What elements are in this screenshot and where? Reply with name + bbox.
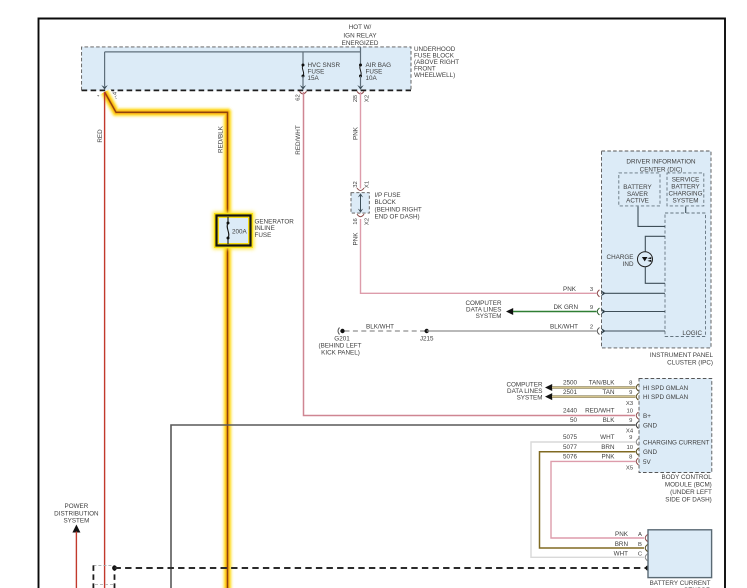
connector cup BCM charging current (636, 439, 638, 446)
svg-text:9: 9 (629, 418, 632, 424)
svg-text:KICK PANEL): KICK PANEL) (321, 349, 360, 356)
svg-text:WHEELWELL): WHEELWELL) (414, 72, 455, 79)
label BATTERY SAVER ACTIVE (623, 184, 652, 204)
svg-text:2B: 2B (353, 95, 359, 102)
svg-text:ENERGIZED: ENERGIZED (342, 40, 379, 47)
connector cup into ip fuse block (357, 188, 364, 191)
label POWER DISTRIBUTION SYSTEM (54, 503, 99, 524)
svg-text:X5: X5 (626, 466, 634, 472)
arrow DK GRN to computer data lines (506, 308, 513, 315)
svg-text:POWER: POWER (65, 503, 89, 510)
label 5076 PNK 8 (563, 454, 633, 461)
svg-text:CHARGE: CHARGE (607, 254, 634, 261)
ip fuse block box (351, 193, 369, 213)
label PNK A (615, 531, 642, 538)
svg-text:BATTERY: BATTERY (671, 184, 700, 191)
connector cup BCM 5v (636, 458, 638, 465)
svg-text:PNK: PNK (602, 454, 616, 461)
svg-text:X4: X4 (626, 428, 634, 434)
svg-text:5075: 5075 (563, 434, 578, 441)
svg-text:PNK: PNK (615, 531, 629, 538)
label 50 BLK 9 (570, 417, 632, 424)
BCM internal labels (643, 385, 710, 466)
arrow at pin 1 (101, 85, 107, 90)
svg-text:IND: IND (623, 261, 634, 268)
svg-text:62: 62 (296, 94, 302, 101)
connector cup IPC pin 3 (597, 290, 599, 297)
connector cup pin 62 (300, 91, 307, 94)
svg-text:(BEHIND RIGHT: (BEHIND RIGHT (375, 206, 422, 213)
svg-text:BLK/WHT: BLK/WHT (366, 323, 394, 330)
label 5075 WHT 9 (563, 434, 632, 441)
svg-text:B: B (638, 542, 642, 548)
label HVC SNSR FUSE 15A (308, 62, 341, 82)
label BODY CONTROL MODULE (BCM) (UNDER LEFT SIDE OF DASH) (662, 474, 713, 503)
svg-text:32: 32 (353, 181, 359, 188)
svg-text:END OF DASH): END OF DASH) (375, 214, 420, 221)
svg-text:TAN/BLK: TAN/BLK (589, 380, 616, 387)
label CHARGE IND (607, 254, 634, 268)
wire PNK 5076 (551, 461, 644, 538)
instrument panel cluster box (602, 151, 712, 348)
label SERVICE BATTERY CHARGING SYSTEM (669, 177, 703, 205)
connector cup IPC pin 9 (597, 308, 599, 315)
fuse HVC SNSR 15A (302, 64, 305, 78)
label DRIVER INFORMATION CENTER (DIC) (626, 159, 696, 174)
wire RED/BLK thick highlighted generator cable (105, 92, 228, 217)
junction dot at battery current sensor (645, 565, 650, 570)
svg-text:(UNDER LEFT: (UNDER LEFT (670, 489, 712, 496)
arrow to power distribution (72, 525, 80, 533)
label INSTRUMENT PANEL CLUSTER (IPC) (650, 352, 714, 366)
connector cup BCS A (645, 535, 647, 542)
svg-text:X2: X2 (365, 218, 371, 225)
junction dot dashed link (112, 566, 117, 571)
dashed link line to battery current sensor (115, 567, 649, 569)
wire BLK 50 (171, 425, 636, 588)
svg-text:MODULE (BCM): MODULE (BCM) (665, 482, 712, 489)
battery saver active box (619, 173, 660, 206)
svg-text:FUSE: FUSE (255, 232, 272, 239)
label G201 (BEHIND LEFT KICK PANEL) (318, 335, 361, 356)
label BRN B (615, 541, 642, 548)
svg-text:16: 16 (353, 218, 359, 225)
wire bus inside fuse block (105, 51, 361, 53)
logic box (665, 213, 706, 337)
svg-text:SYSTEM: SYSTEM (673, 197, 699, 204)
label UNDERHOOD FUSE BLOCK (ABOVE RIGHT FRONT WHEELWELL) (414, 46, 459, 79)
svg-text:RED/WHT: RED/WHT (295, 125, 302, 155)
svg-text:WHT: WHT (600, 434, 614, 441)
connector cup BCM pin 10 (636, 412, 638, 419)
label COMPUTER DATA LINES SYSTEM (IPC) (465, 300, 501, 320)
wire RED power distribution (75, 532, 77, 588)
svg-text:HOT W/: HOT W/ (349, 24, 372, 31)
svg-text:BATTERY CURRENT: BATTERY CURRENT (650, 580, 711, 587)
label 2501 TAN 9 (563, 389, 632, 396)
fuse 200A symbol (227, 217, 248, 244)
svg-text:SYSTEM: SYSTEM (476, 313, 502, 320)
label AIR BAG FUSE 10A (366, 62, 392, 82)
svg-text:CENTER (DIC): CENTER (DIC) (640, 166, 683, 173)
svg-text:RED/BLK: RED/BLK (218, 125, 225, 153)
wire WHT 5075 (531, 442, 644, 557)
svg-text:5V: 5V (643, 459, 652, 466)
wire drop to HVC fuse (302, 52, 304, 65)
svg-text:(BEHIND LEFT: (BEHIND LEFT (318, 342, 361, 349)
connector cup BCM pin 9 X4 (636, 422, 638, 429)
svg-text:RED/WHT: RED/WHT (585, 408, 615, 415)
svg-text:BLK/WHT: BLK/WHT (550, 324, 578, 331)
svg-text:GND: GND (643, 423, 657, 430)
fuse AIR BAG 10A (359, 64, 362, 78)
connector cup below ip fuse block (357, 214, 364, 217)
svg-text:5076: 5076 (563, 454, 578, 461)
label 5077 BRN 10 (563, 444, 634, 451)
label WHT C (614, 551, 643, 558)
wire RED/WHT from pin 62 (304, 92, 636, 416)
svg-text:PNK: PNK (563, 286, 577, 293)
label GENERATOR INLINE FUSE (255, 218, 295, 239)
battery current sensor box (648, 530, 712, 578)
wire IPC pin2 to logic (601, 328, 606, 334)
wire PNK from air bag fuse (360, 92, 362, 189)
junction J215 (425, 329, 429, 333)
svg-text:10A: 10A (366, 75, 378, 82)
svg-text:10: 10 (627, 445, 634, 451)
svg-text:C: C (638, 552, 643, 558)
svg-text:200A: 200A (232, 228, 248, 235)
label 2500 TAN/BLK 8 (563, 380, 633, 387)
label 2440 RED/WHT 10 (563, 408, 634, 415)
svg-text:SYSTEM: SYSTEM (517, 394, 543, 401)
svg-text:50: 50 (570, 417, 578, 424)
svg-text:2501: 2501 (563, 389, 578, 396)
svg-text:B+: B+ (643, 413, 651, 420)
svg-text:INSTRUMENT PANEL: INSTRUMENT PANEL (650, 352, 714, 359)
svg-text:PNK: PNK (353, 126, 360, 140)
wire battery saver to logic (638, 207, 665, 227)
label HOT W/ IGN RELAY ENERGIZED (342, 24, 379, 47)
svg-text:CHARGING CURRENT: CHARGING CURRENT (643, 440, 710, 447)
label I/P FUSE BLOCK (BEHIND RIGHT END OF DASH) (375, 192, 422, 221)
wire RED main (104, 92, 106, 588)
connector cup IPC pin 2 (597, 328, 599, 335)
svg-text:HI SPD GMLAN: HI SPD GMLAN (643, 394, 689, 401)
body control module box (639, 379, 712, 473)
charge indicator circle (638, 252, 653, 267)
service battery charging system box (667, 173, 704, 206)
wire AIR BAG fuse to pin 2B (360, 76, 362, 87)
wire RED/BLK lower segment (221, 244, 234, 588)
svg-text:SYSTEM: SYSTEM (63, 517, 89, 524)
svg-text:BODY CONTROL: BODY CONTROL (662, 474, 713, 481)
ground G201 (338, 328, 345, 335)
wire TAN (552, 396, 636, 398)
svg-text:10: 10 (627, 409, 634, 415)
arrow at pin 2B (357, 85, 363, 90)
svg-text:DRIVER INFORMATION: DRIVER INFORMATION (626, 159, 696, 166)
wire drop to pin 1 (104, 52, 106, 87)
charge indicator LED symbol (642, 257, 651, 262)
svg-text:BRN: BRN (615, 541, 629, 548)
connector cup BCS C (645, 554, 647, 561)
wire TAN/BLK (552, 386, 636, 388)
arrow at pin 62 (300, 85, 306, 90)
svg-text:BRN: BRN (601, 444, 615, 451)
svg-text:9: 9 (629, 435, 632, 441)
svg-text:IGN RELAY: IGN RELAY (343, 32, 377, 39)
wire DK GRN to IPC pin 9 (513, 311, 597, 313)
svg-text:LOGIC: LOGIC (682, 330, 702, 337)
svg-text:SIDE OF DASH): SIDE OF DASH) (665, 496, 712, 503)
svg-text:PNK: PNK (353, 232, 360, 246)
svg-text:A: A (638, 532, 642, 538)
wire BRN 5077 (540, 452, 645, 548)
svg-text:DK GRN: DK GRN (554, 304, 579, 311)
underhood fuse block box (82, 47, 411, 91)
svg-text:TAN: TAN (602, 389, 615, 396)
bottom connector box dashed (93, 565, 114, 588)
svg-text:2: 2 (590, 325, 593, 331)
wire logic to charge ind (645, 236, 665, 251)
svg-text:CLUSTER (IPC): CLUSTER (IPC) (667, 359, 713, 366)
connector cup pin 2B (357, 91, 364, 94)
svg-text:2440: 2440 (563, 408, 578, 415)
wire charge ind to logic lower (645, 267, 665, 284)
connector cup BCM gnd (636, 448, 638, 455)
wire drop from ign relay label (360, 47, 362, 65)
wire IPC pin9 to logic (601, 308, 606, 314)
svg-text:9: 9 (629, 390, 632, 396)
svg-text:GND: GND (643, 449, 657, 456)
svg-text:G201: G201 (334, 335, 350, 342)
svg-text:5077: 5077 (563, 444, 578, 451)
svg-text:X2: X2 (365, 95, 371, 102)
connector cup BCM pin 9 (636, 393, 638, 400)
arrow TAN/BLK (545, 384, 552, 391)
wire service battery to logic (685, 207, 687, 214)
svg-text:BLOCK: BLOCK (375, 199, 397, 206)
svg-text:RED: RED (97, 129, 104, 143)
connector cup BCS B (645, 545, 647, 552)
svg-text:X1: X1 (365, 181, 371, 188)
svg-text:WHT: WHT (614, 551, 628, 558)
svg-text:X3: X3 (626, 401, 634, 407)
wire through ip fuse block with arrows (358, 193, 363, 213)
svg-text:BLK: BLK (603, 417, 616, 424)
svg-text:ACTIVE: ACTIVE (626, 197, 649, 204)
arrow TAN (545, 393, 552, 400)
generator inline fuse box (217, 216, 251, 246)
wire PNK lower to IPC pin 3 (361, 219, 597, 293)
svg-text:2500: 2500 (563, 380, 578, 387)
svg-text:15A: 15A (308, 75, 320, 82)
wire BLK/WHT dashed G201 to J215 (345, 330, 427, 332)
label COMPUTER DATA LINES SYSTEM (BCM) (506, 381, 542, 401)
svg-text:HI SPD GMLAN: HI SPD GMLAN (643, 385, 689, 392)
wire IPC pin3 to logic (601, 290, 606, 296)
svg-text:9: 9 (590, 305, 593, 311)
wire HVC fuse to pin 62 (302, 76, 304, 87)
svg-text:J215: J215 (420, 335, 434, 342)
svg-text:BATTERY: BATTERY (623, 184, 652, 191)
svg-text:I/P FUSE: I/P FUSE (375, 192, 401, 199)
connector cup BCM pin 8 (636, 384, 638, 391)
wire BLK/WHT solid to IPC pin 2 (427, 330, 597, 332)
